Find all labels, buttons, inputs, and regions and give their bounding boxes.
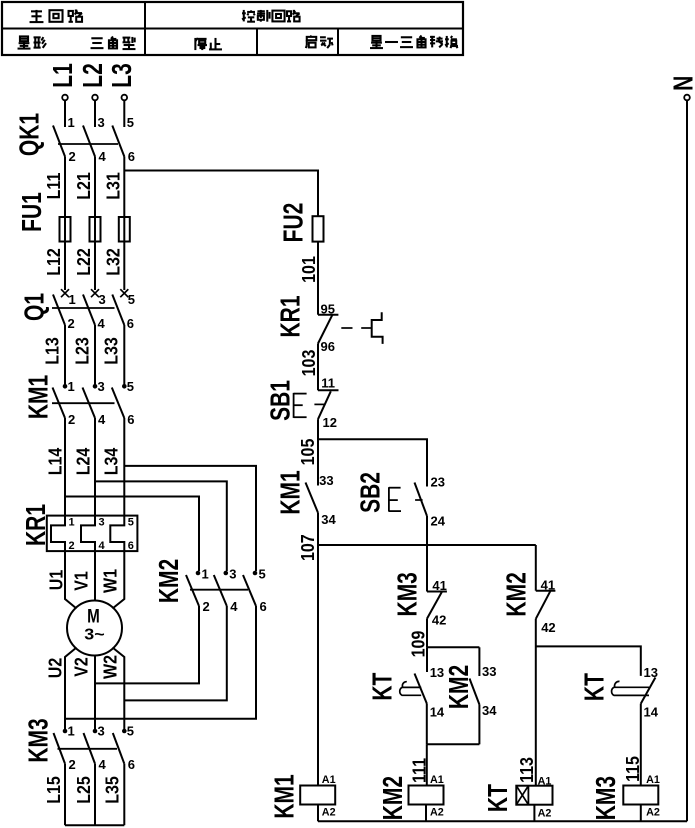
KR1 pin 5	[128, 517, 134, 529]
wire KR1 to motor V1	[94, 551, 96, 601]
svg-text:A2: A2	[322, 807, 336, 819]
contactor KM1 pole 3-4 fixed contact dot	[93, 384, 98, 389]
contactor KM2 pole 5-6 fixed contact dot	[253, 571, 258, 576]
wire Q1 to KM1 pole 1	[64, 325, 66, 386]
svg-text:113: 113	[516, 757, 537, 783]
KM2 pin 33	[482, 664, 496, 679]
KM1 pin 2	[68, 412, 75, 427]
motor text M	[87, 605, 100, 627]
svg-text:4: 4	[99, 149, 107, 164]
svg-text:2: 2	[69, 540, 75, 552]
KT NO contact blade 13-14 right	[641, 678, 656, 704]
table: row divider	[2, 28, 463, 30]
node label 115	[622, 756, 643, 782]
svg-text:3: 3	[99, 517, 105, 529]
KM3 coil pin A2	[646, 807, 660, 819]
contactor KM1 pole 5-6 fixed contact dot	[122, 384, 127, 389]
time relay KT coil label	[484, 784, 514, 812]
wire node 105 to SB2	[318, 439, 427, 486]
time relay KT delayed contact label right	[580, 673, 610, 701]
contactor KM2 pole blade 3-4	[214, 575, 227, 606]
svg-text:23: 23	[431, 475, 445, 490]
svg-text:2: 2	[68, 412, 75, 427]
KM3 pin 4	[99, 757, 107, 772]
wire tap L14 to KM2 pole 1	[65, 497, 199, 572]
svg-text:KM1: KM1	[24, 375, 54, 419]
contactor KM3 star contacts label	[24, 718, 54, 762]
svg-text:3: 3	[98, 724, 105, 739]
svg-text:13: 13	[430, 665, 444, 680]
switch QK1 pole blade 5-6	[112, 126, 124, 157]
svg-text:105: 105	[297, 438, 318, 465]
wire L2 terminal to QK1	[94, 100, 96, 127]
KM1 pin 1	[68, 379, 75, 394]
Q1 linkage bar	[52, 307, 115, 309]
svg-text:A1: A1	[430, 774, 444, 786]
wire tap L24 to KM2 pole 3	[95, 481, 227, 571]
svg-text:N: N	[669, 76, 695, 91]
terminal label U2	[44, 658, 65, 678]
svg-text:FU2: FU2	[279, 203, 309, 243]
KM3 pin 5	[127, 724, 134, 739]
thermal relay KR1 heater box	[47, 516, 138, 552]
table: outer border	[2, 2, 463, 55]
svg-text:12: 12	[323, 415, 337, 430]
svg-text:14: 14	[644, 705, 659, 720]
wire KM1 to KR1 pole 2	[94, 418, 96, 516]
svg-text:1: 1	[69, 517, 75, 529]
breaker QK1 label	[15, 113, 45, 156]
node label L23	[71, 337, 92, 365]
contactor KM2 aux contact label	[444, 665, 474, 709]
breaker Q1 pole 1-2 cross mark	[61, 289, 69, 297]
breaker Q1 pole blade 1-2	[53, 295, 65, 326]
SB1 button operator	[294, 393, 307, 418]
contactor KM3 pole 3-4 fixed contact dot	[93, 729, 98, 734]
KR1 trip linkage dashed line	[341, 327, 371, 329]
SB1 NC contact blade 11-12	[318, 391, 331, 419]
node label L21	[73, 172, 94, 200]
wire L3 terminal to QK1	[123, 100, 125, 127]
QK1 pin 6	[128, 149, 135, 164]
KR1 heater element 3-4	[81, 516, 95, 552]
svg-text:5: 5	[127, 724, 134, 739]
svg-text:A2: A2	[646, 807, 660, 819]
wire node 107 to KM1 coil branch	[317, 545, 319, 786]
fuse FU1 pole 2	[90, 217, 101, 242]
svg-text:4: 4	[98, 412, 106, 427]
KM2 coil pin A1	[430, 774, 444, 786]
contactor KM1 pole blade 5-6	[112, 388, 125, 419]
KM3 linkage bar	[58, 748, 118, 750]
thermal relay KR1 NC contact label	[276, 296, 306, 338]
svg-text:111: 111	[408, 758, 429, 783]
svg-text:1: 1	[202, 567, 209, 582]
svg-text:33: 33	[319, 473, 333, 488]
svg-text:109: 109	[407, 631, 428, 658]
star point bus bar	[65, 824, 124, 826]
KM1 coil pin A2	[322, 807, 336, 819]
svg-text:KM3: KM3	[24, 718, 54, 762]
KM2 pin 6	[260, 599, 267, 614]
svg-text:96: 96	[321, 339, 335, 354]
svg-text:M: M	[87, 605, 100, 627]
time relay KT delayed contact label	[368, 673, 398, 701]
node label L32	[102, 248, 123, 276]
svg-text:13: 13	[644, 665, 658, 680]
KT delay symbol right	[612, 681, 649, 695]
svg-text:L32: L32	[102, 248, 123, 276]
KM2 coil pin A2	[430, 807, 444, 819]
KR1 pin 95	[321, 302, 335, 317]
node label L14	[44, 447, 65, 475]
svg-text:L14: L14	[44, 447, 65, 475]
table: row2 divider at x=338	[337, 29, 339, 56]
svg-text:34: 34	[321, 512, 336, 527]
time relay coil KT	[516, 786, 552, 805]
svg-text:SB2: SB2	[356, 472, 386, 513]
terminal label U1	[45, 569, 66, 590]
SB1 pin 12	[323, 415, 337, 430]
table cell text 星—三角转换	[370, 36, 458, 49]
svg-text:101: 101	[298, 256, 319, 283]
motor text 3~	[84, 625, 105, 643]
wire SB1 to node 105	[317, 419, 319, 485]
node label L24	[72, 447, 93, 475]
svg-text:U1: U1	[45, 569, 66, 590]
KM2 linkage bar	[190, 589, 248, 591]
wire node 107 rail	[318, 544, 536, 546]
contactor KM1 main contacts label	[24, 375, 54, 419]
breaker Q1 label	[20, 293, 50, 321]
node label 101	[298, 256, 319, 283]
svg-text:A2: A2	[538, 808, 552, 820]
svg-text:KM3: KM3	[591, 776, 621, 820]
svg-text:A1: A1	[322, 774, 336, 786]
svg-text:L35: L35	[102, 776, 123, 804]
wire KM1 aux to node 107	[317, 513, 319, 545]
svg-text:W1: W1	[99, 569, 120, 593]
fuse FU1 label	[17, 192, 47, 232]
contactor KM2 pole blade 1-2	[186, 575, 199, 606]
KR1 NC contact crossbar	[318, 314, 338, 316]
SB1 operator dashed link	[314, 403, 324, 405]
KM2 pin 1	[202, 567, 209, 582]
KM1 pin 6	[127, 412, 134, 427]
wire motor W2 down	[113, 648, 125, 732]
svg-text:A1: A1	[646, 774, 660, 786]
svg-text:115: 115	[622, 756, 643, 782]
wire tap QK1 pole3 to control circuit FU2	[124, 171, 318, 217]
contactor KM2 pole blade 5-6	[243, 575, 256, 606]
svg-text:2: 2	[68, 316, 75, 331]
KM1 pin 33	[319, 473, 333, 488]
motor M 3~ circle	[67, 601, 122, 656]
svg-text:A2: A2	[430, 807, 444, 819]
terminal label V2	[70, 657, 91, 677]
contactor coil KM3	[623, 786, 658, 805]
svg-text:41: 41	[541, 578, 555, 593]
contactor KM2 coil label	[379, 776, 409, 820]
svg-text:Q1: Q1	[20, 293, 50, 321]
KT pin 13 right	[644, 665, 658, 680]
Q1 pin 3	[99, 292, 106, 307]
table cell text 星形	[18, 36, 47, 48]
table cell text 启动	[306, 36, 333, 49]
KM2 pin 42	[541, 620, 555, 635]
svg-text:L13: L13	[41, 337, 62, 365]
table cell text 停止	[195, 38, 222, 50]
table header text 主回路	[30, 10, 82, 22]
svg-text:L25: L25	[73, 776, 94, 804]
switch QK1 pole blade 3-4	[83, 126, 95, 157]
svg-text:5: 5	[127, 379, 134, 394]
breaker Q1 pole blade 3-4	[83, 295, 95, 326]
KM3 NC contact crossbar	[427, 591, 447, 593]
svg-text:KM1: KM1	[276, 470, 306, 514]
contactor KM3 pole 5-6 fixed contact dot	[122, 729, 127, 734]
supply terminal L1	[48, 63, 78, 100]
wire Q1 to KM1 pole 3	[123, 325, 125, 386]
wire node 107 to KM3 NC contact	[426, 545, 428, 592]
svg-text:KM3: KM3	[393, 572, 423, 616]
contactor KM3 pole blade 1-2	[54, 733, 66, 764]
KT coil pin A2	[538, 808, 552, 820]
KT NO contact blade 13-14	[415, 674, 427, 704]
KM1 coil pin A1	[322, 774, 336, 786]
breaker Q1 pole blade 5-6	[112, 295, 124, 326]
KM3 pin 41	[432, 578, 446, 593]
node label 107	[297, 534, 318, 561]
contactor KM2 pole 1-2 fixed contact dot	[196, 571, 201, 576]
KR1 pin 6	[128, 540, 134, 552]
svg-text:103: 103	[298, 350, 319, 377]
node label 105	[297, 438, 318, 465]
svg-text:W2: W2	[99, 655, 120, 679]
wire join to KM2 coil	[426, 744, 428, 785]
svg-text:95: 95	[321, 302, 335, 317]
KM2 pin 3	[229, 567, 236, 582]
svg-text:3: 3	[98, 115, 105, 130]
wire KM2 pole6 bottom to U2	[65, 606, 256, 719]
node label L25	[73, 776, 94, 804]
pushbutton SB1 label	[266, 380, 296, 421]
KR1 pin 4	[99, 540, 106, 552]
KM3 coil pin A1	[646, 774, 660, 786]
svg-text:3: 3	[98, 379, 105, 394]
terminal label W1	[99, 569, 120, 593]
svg-text:L15: L15	[43, 776, 64, 804]
svg-text:2: 2	[203, 599, 210, 614]
svg-text:2: 2	[69, 149, 76, 164]
svg-text:6: 6	[127, 412, 134, 427]
svg-text:1: 1	[68, 115, 75, 130]
node label L22	[73, 248, 94, 276]
wire KM3 pole 2 to star point	[94, 764, 96, 826]
svg-text:KT: KT	[484, 784, 514, 812]
svg-text:14: 14	[430, 705, 445, 720]
KM2 pin 34	[482, 703, 497, 718]
QK1 linkage bar	[58, 143, 118, 145]
wire KR1 to motor U1	[65, 551, 77, 608]
fuse FU1 pole 1	[60, 217, 71, 242]
svg-text:KM2: KM2	[379, 776, 409, 820]
terminal label V1	[70, 571, 91, 591]
table cell text 三角型	[91, 37, 136, 50]
contactor KM3 pole blade 3-4	[84, 733, 96, 764]
wire tap L34 to KM2 pole 5	[124, 466, 256, 571]
node label L33	[100, 337, 121, 365]
contactor KM1 pole blade 3-4	[83, 388, 96, 419]
Q1 pin 1	[69, 292, 76, 307]
svg-text:V2: V2	[70, 657, 91, 677]
svg-text:1: 1	[68, 724, 75, 739]
contactor KM2 main contacts label	[154, 559, 184, 603]
svg-text:34: 34	[482, 703, 497, 718]
Q1 pin 2	[68, 316, 75, 331]
contactor KM3 pole blade 5-6	[113, 733, 125, 764]
KT delay symbol	[400, 682, 421, 696]
svg-text:4: 4	[99, 757, 107, 772]
KM1 aux NO contact blade 33-34	[306, 483, 319, 513]
Q1 pin 5	[128, 292, 135, 307]
wire parallel branch to KM2 aux	[478, 647, 480, 676]
supply terminal L3	[108, 63, 138, 100]
svg-text:V1: V1	[70, 571, 91, 591]
node label 109	[407, 631, 428, 658]
svg-text:KM2: KM2	[444, 665, 474, 709]
wire node 109 split to KM2 aux branch	[427, 646, 479, 648]
QK1 pin 2	[69, 149, 76, 164]
Q1 pin 6	[127, 316, 134, 331]
KM1 pin 5	[127, 379, 134, 394]
wire KM2 pole2 bottom to V2	[95, 606, 199, 683]
KM1 pin 4	[98, 412, 106, 427]
svg-text:KT: KT	[368, 673, 398, 701]
SB2 NO contact blade 23-24	[415, 483, 428, 517]
switch QK1 pole blade 1-2	[53, 126, 65, 157]
table: row2 divider at x=257	[256, 29, 258, 56]
node label L12	[43, 248, 64, 276]
svg-text:KM1: KM1	[270, 774, 300, 818]
Q1 pin 4	[98, 316, 106, 331]
wire node 107 to KM2 NC contact	[535, 545, 537, 591]
svg-text:2: 2	[69, 757, 76, 772]
svg-text:6: 6	[260, 599, 267, 614]
svg-text:24: 24	[431, 514, 446, 529]
svg-text:11: 11	[321, 376, 335, 391]
fuse FU2 label	[279, 203, 309, 243]
node label 103	[298, 350, 319, 377]
KM2 pin 4	[230, 599, 238, 614]
terminal label W2	[99, 655, 120, 679]
breaker Q1 pole 3-4 cross mark	[91, 289, 99, 297]
wire motor U2 down	[65, 648, 77, 732]
wire KT contact to KM3 coil	[640, 704, 642, 786]
table header text 控制回路	[242, 10, 300, 22]
svg-text:QK1: QK1	[15, 113, 45, 156]
svg-text:L1: L1	[48, 63, 78, 88]
KM1 pin 34	[321, 512, 336, 527]
wire KM3 NC to node 109	[426, 619, 428, 648]
contactor KM3 pole 1-2 fixed contact dot	[63, 729, 68, 734]
svg-text:3: 3	[229, 567, 236, 582]
wire QK1 to FU1 pole 1	[64, 157, 66, 218]
KR1 pin 96	[321, 339, 335, 354]
node label L31	[102, 172, 123, 200]
node label 111	[408, 758, 429, 783]
contactor KM1 pole blade 1-2	[53, 388, 66, 419]
wire KM1 to KR1 pole 1	[64, 418, 66, 516]
svg-text:L3: L3	[108, 63, 138, 88]
QK1 pin 4	[99, 149, 107, 164]
svg-text:L24: L24	[72, 447, 93, 475]
wire KM3 pole 3 to star point	[123, 764, 125, 826]
KM3 pin 6	[128, 757, 135, 772]
wire KM1 to KR1 pole 3	[123, 418, 125, 516]
KM2 NC contact crossbar	[536, 590, 556, 592]
wire bottom control rail	[318, 820, 687, 822]
svg-text:33: 33	[482, 664, 496, 679]
svg-text:6: 6	[128, 757, 135, 772]
svg-text:L12: L12	[43, 248, 64, 276]
svg-text:3~: 3~	[84, 625, 105, 643]
KM2 pin 2	[203, 599, 210, 614]
node label L11	[43, 172, 64, 199]
QK1 pin 5	[127, 115, 134, 130]
svg-text:KT: KT	[580, 673, 610, 701]
wire QK1 to FU1 pole 3	[123, 157, 125, 218]
svg-text:KR1: KR1	[276, 296, 306, 338]
svg-text:L34: L34	[100, 447, 121, 475]
node label L34	[100, 447, 121, 475]
SB2 button operator	[389, 487, 401, 511]
wire L1 terminal to QK1	[64, 100, 66, 127]
wire FU1 to Q1 pole 1	[64, 242, 66, 291]
KR1 pin 1	[69, 517, 75, 529]
thermal relay KR1 heater label	[21, 504, 51, 546]
svg-text:41: 41	[432, 578, 446, 593]
QK1 pin 1	[68, 115, 75, 130]
svg-text:42: 42	[432, 613, 446, 628]
contactor KM2 NC aux label	[502, 572, 532, 616]
svg-text:L33: L33	[100, 337, 121, 365]
SB1 NC contact crossbar	[318, 389, 339, 391]
svg-text:A1: A1	[538, 776, 552, 788]
svg-text:L21: L21	[73, 172, 94, 200]
SB2 operator dashed link	[415, 499, 423, 501]
svg-text:3: 3	[99, 292, 106, 307]
svg-text:6: 6	[128, 149, 135, 164]
KR1 reset mechanism symbol	[372, 312, 383, 344]
QK1 pin 3	[98, 115, 105, 130]
SB1 pin 11	[321, 376, 335, 391]
neutral terminal N	[669, 76, 695, 101]
contactor KM2 pole 3-4 fixed contact dot	[224, 571, 229, 576]
wire FU2 to KR1 contact	[317, 242, 319, 315]
KM3 pin 3	[98, 724, 105, 739]
svg-text:L22: L22	[73, 248, 94, 276]
SB2 pin 23	[431, 475, 445, 490]
KM3 pin 2	[69, 757, 76, 772]
breaker Q1 pole 5-6 cross mark	[120, 289, 128, 297]
pushbutton SB2 label	[356, 472, 386, 513]
node label L35	[102, 776, 123, 804]
fuse FU2	[313, 216, 324, 241]
supply terminal L2	[78, 63, 108, 100]
wire KM3 coil to bottom rail	[640, 805, 642, 822]
wire KM2 aux to parallel join	[478, 705, 480, 745]
